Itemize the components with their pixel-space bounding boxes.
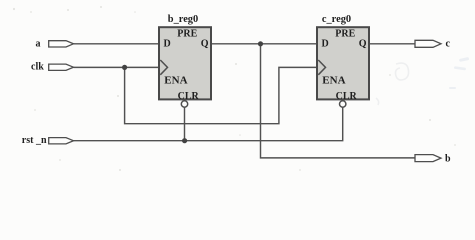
svg-text:CLR: CLR [178, 91, 200, 102]
svg-text:Q: Q [359, 39, 367, 50]
svg-text:b: b [445, 154, 451, 165]
svg-text:ENA: ENA [322, 75, 345, 87]
svg-text:Q: Q [201, 39, 209, 50]
svg-text:rst _n: rst _n [22, 135, 47, 146]
svg-text:a: a [36, 38, 41, 49]
svg-text:clk: clk [31, 61, 44, 72]
svg-text:ENA: ENA [164, 75, 187, 87]
svg-text:CLR: CLR [336, 91, 358, 102]
svg-text:D: D [164, 39, 171, 50]
svg-text:D: D [322, 39, 329, 50]
svg-text:b_reg0: b_reg0 [168, 14, 198, 25]
svg-text:PRE: PRE [177, 28, 197, 39]
svg-text:PRE: PRE [335, 28, 355, 39]
svg-text:c: c [446, 39, 451, 50]
svg-text:c_reg0: c_reg0 [322, 14, 351, 25]
